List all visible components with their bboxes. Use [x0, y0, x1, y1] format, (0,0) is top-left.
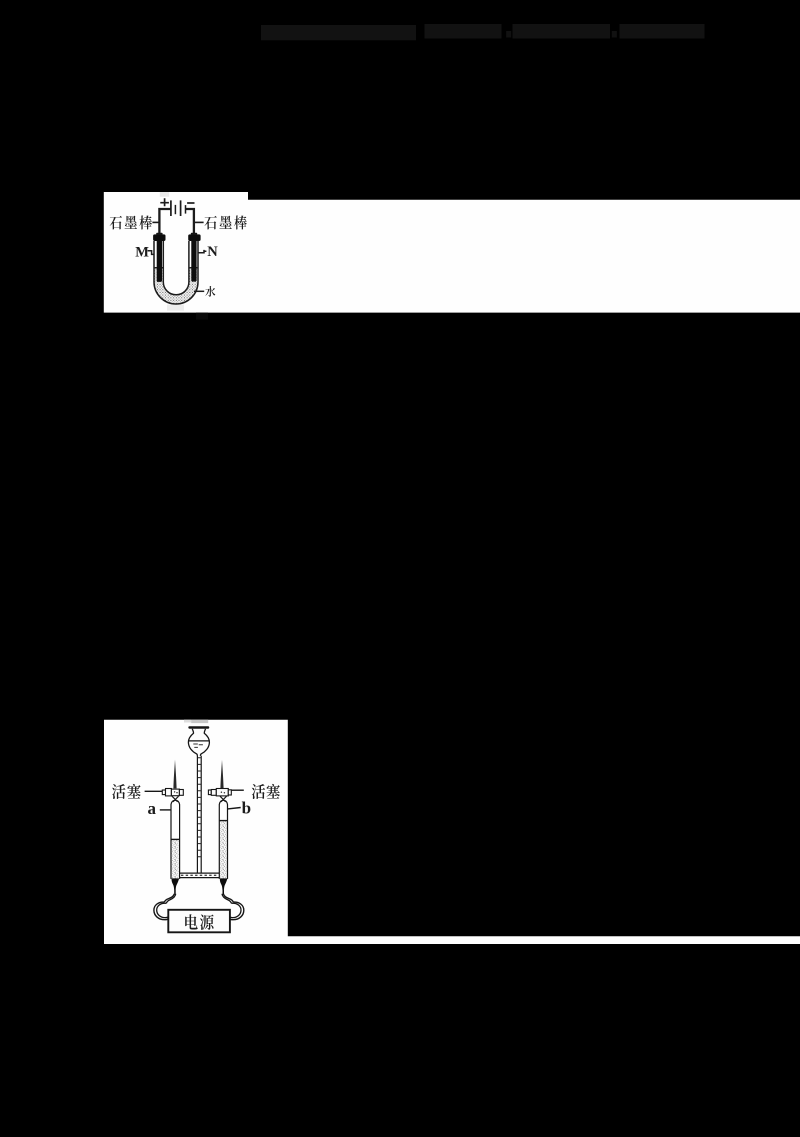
label shimobang right [204, 216, 216, 230]
water surface lines [154, 267, 198, 269]
tube a walls [171, 800, 180, 879]
faint artifact below figure 1 [196, 313, 208, 320]
tube a water surface [171, 838, 180, 840]
redacted title block 1 [261, 25, 416, 40]
left rubber stopper [153, 234, 165, 241]
central graduated tube walls [197, 756, 201, 873]
figure 2 white panel with bottom strip [104, 720, 800, 944]
right stopcock leader line [231, 789, 243, 791]
power supply box [168, 910, 230, 933]
battery cell plates [170, 200, 172, 216]
U-tube inner wall [163, 241, 189, 295]
left lead wire curves [165, 894, 175, 902]
battery plus sign [160, 198, 169, 206]
label huosai right [252, 784, 265, 799]
U-tube outer wall [154, 241, 198, 304]
flask liquid line [188, 740, 209, 742]
platinum electrode a [172, 878, 180, 890]
svg-text:b: b [242, 798, 251, 817]
redacted title block 2 [425, 24, 502, 39]
leader line right graphite label [194, 221, 204, 223]
left stopcock body [162, 789, 183, 796]
comma separator 2 [612, 31, 617, 38]
svg-text:a: a [148, 799, 157, 818]
svg-text:N: N [207, 244, 218, 260]
pinch below right stopcock [220, 796, 227, 802]
label shui (water) [205, 286, 215, 297]
right lead wire curves (mirrored) [222, 894, 244, 920]
tube b walls [219, 800, 227, 879]
redacted title block 4 [620, 24, 705, 39]
left needle valve stem [173, 760, 176, 789]
water fill in U-tube [154, 268, 198, 304]
left graphite electrode [157, 235, 162, 282]
label dianyuan (power) [185, 914, 198, 929]
redacted title block 3 [513, 24, 611, 39]
right rubber stopper [188, 234, 200, 241]
pinch below left stopcock [172, 796, 179, 802]
label shimobang left [110, 216, 122, 230]
graduation ticks [198, 758, 201, 857]
tube b water fill [220, 821, 227, 878]
battery minus sign [187, 202, 194, 204]
bottom connector tube [180, 873, 220, 878]
left stopcock leader line [145, 790, 163, 792]
tube a water fill [172, 840, 179, 879]
gray scan artifact below U-tube [167, 305, 184, 311]
tube b water surface [219, 820, 227, 822]
wire battery to left electrode [159, 209, 170, 236]
figure 1 white panel (stepped) [104, 192, 800, 313]
gray scan artifact top of figure 2 [184, 720, 191, 723]
right needle valve stem [220, 760, 223, 789]
platinum electrode b [220, 878, 228, 890]
leader line left graphite label [152, 221, 159, 223]
flask bulb outline [188, 729, 209, 756]
wire battery to right electrode [186, 209, 194, 236]
leader line water label [194, 290, 204, 292]
svg-text:M: M [135, 244, 149, 260]
gray scan artifact top of figure 1 [160, 192, 169, 197]
flask liquid dashes [193, 744, 203, 747]
right stopcock body [208, 789, 231, 796]
right graphite electrode [191, 235, 196, 282]
flask rim [188, 726, 209, 728]
comma separator 1 [506, 31, 511, 38]
label huosai left [112, 784, 125, 799]
